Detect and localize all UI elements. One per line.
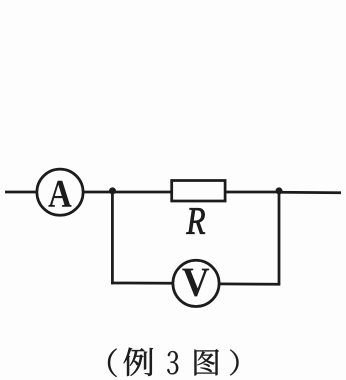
wire: ammeter to left junction <box>84 191 113 194</box>
resistor R (box) <box>172 181 225 202</box>
label R (value label of resistor) <box>186 208 205 233</box>
voltmeter V1 (circle + letter V) <box>173 260 219 306</box>
wire: right junction to right external lead <box>279 191 341 194</box>
wire: voltmeter to bottom right corner <box>220 283 281 286</box>
ammeter A1 (circle + letter A) <box>37 169 83 215</box>
wire: resistor to right junction <box>226 191 279 194</box>
wire: right branch vertical (junction down) <box>278 191 281 284</box>
node: left junction dot <box>109 187 116 194</box>
wire: left junction to resistor <box>113 191 172 194</box>
node: right junction dot <box>276 187 283 194</box>
wire: left external lead <box>5 191 36 194</box>
caption: （例 3 图） figure label <box>108 348 239 377</box>
wire: bottom left horizontal to voltmeter <box>111 282 173 285</box>
wire: left branch vertical (junction down) <box>111 191 114 284</box>
